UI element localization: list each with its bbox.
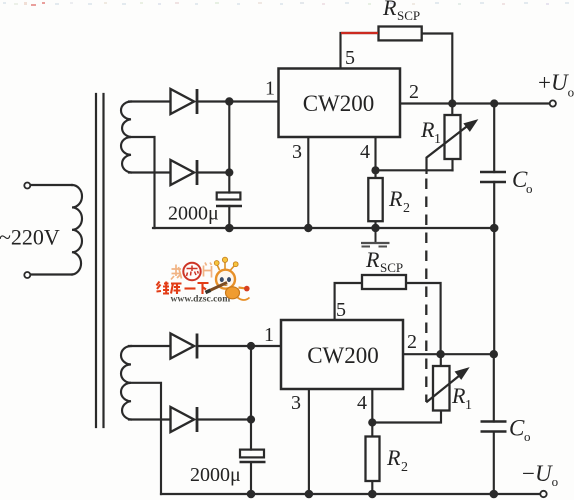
svg-text:2: 2 [403, 201, 410, 216]
svg-text:R: R [386, 445, 401, 470]
svg-text:1: 1 [465, 398, 472, 413]
svg-text:2000μ: 2000μ [190, 464, 241, 486]
svg-text:1: 1 [265, 78, 275, 100]
svg-text:R: R [451, 383, 466, 408]
svg-text:4: 4 [360, 141, 370, 163]
svg-text:2: 2 [409, 81, 419, 103]
svg-text:R: R [420, 117, 435, 142]
svg-text:3: 3 [291, 392, 301, 414]
svg-text:CW200: CW200 [303, 91, 375, 116]
svg-text:SCP: SCP [380, 260, 403, 275]
svg-text:o: o [524, 429, 531, 444]
svg-text:3: 3 [292, 141, 302, 163]
svg-text:5: 5 [336, 299, 346, 321]
svg-text:SCP: SCP [397, 8, 420, 23]
svg-text:2: 2 [401, 460, 408, 475]
svg-text:2: 2 [407, 331, 417, 353]
svg-text:~220V: ~220V [0, 225, 60, 250]
svg-text:R: R [382, 0, 397, 20]
svg-text:R: R [365, 247, 380, 272]
svg-text:www.dzsc.com: www.dzsc.com [171, 294, 231, 305]
svg-text:R: R [388, 186, 403, 211]
svg-text:CW200: CW200 [307, 343, 379, 368]
svg-text:5: 5 [345, 47, 355, 69]
svg-text:1: 1 [434, 132, 441, 147]
svg-text:C: C [509, 416, 525, 441]
svg-text:2000μ: 2000μ [168, 203, 219, 225]
svg-text:4: 4 [357, 392, 367, 414]
svg-text:o: o [526, 181, 533, 196]
svg-text:1: 1 [264, 324, 274, 346]
